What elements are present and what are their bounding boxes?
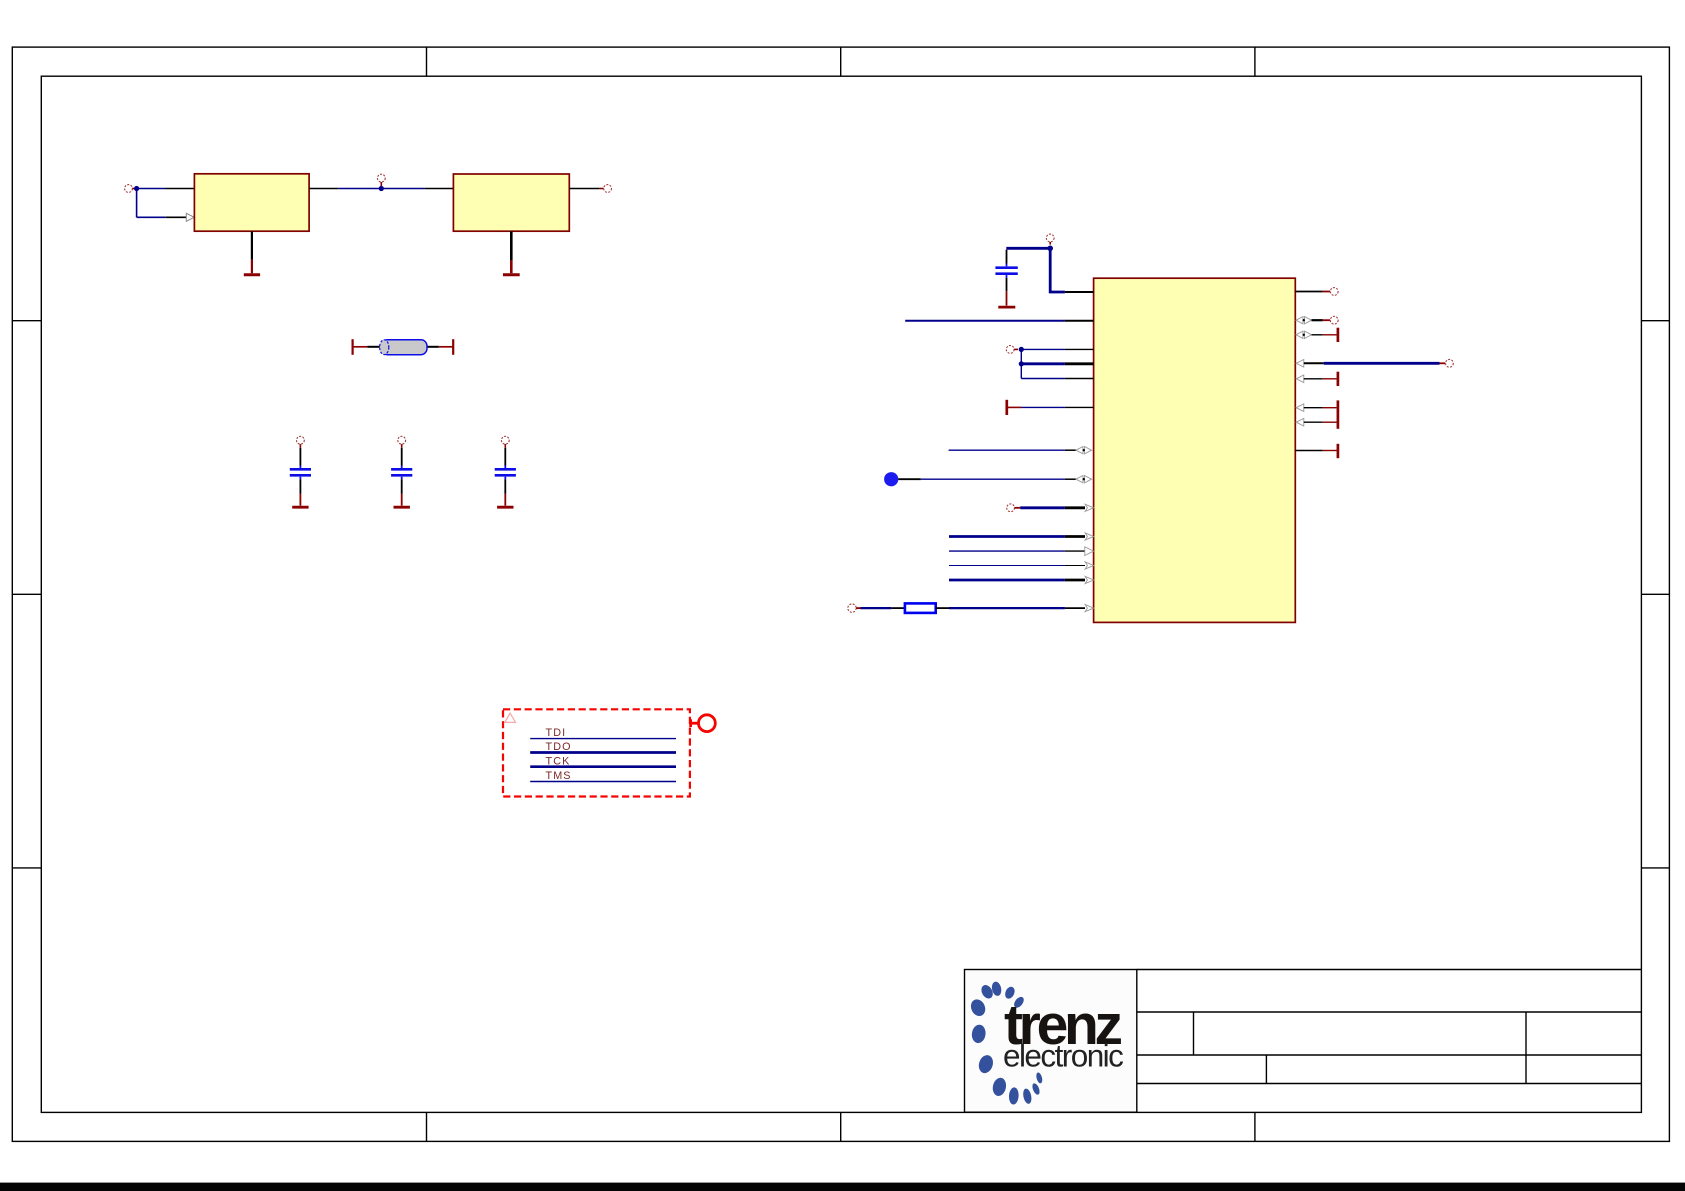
svg-text:TCK: TCK — [546, 755, 571, 767]
svg-text:TDO: TDO — [546, 741, 572, 753]
svg-text:TMS: TMS — [546, 770, 572, 782]
svg-text:electronic: electronic — [1003, 1038, 1123, 1074]
svg-text:TDI: TDI — [546, 727, 567, 739]
